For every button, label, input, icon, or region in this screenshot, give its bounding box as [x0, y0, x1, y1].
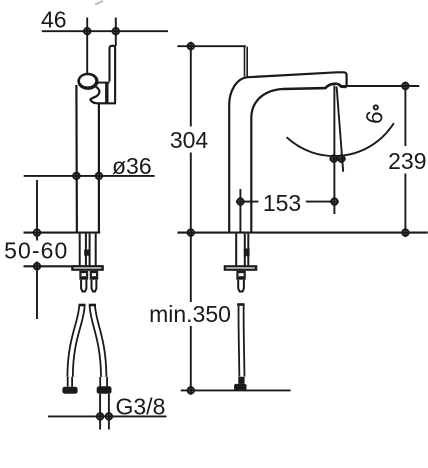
extension line min350 bottom: [181, 389, 291, 391]
flexible hose right: [92, 305, 103, 377]
marker min350 bottom: [186, 386, 195, 395]
body right edge front view: [98, 103, 100, 232]
hose tail prong left: [79, 271, 88, 280]
shank line 3: [89, 234, 91, 266]
svg-text:239: 239: [388, 148, 426, 174]
hose end fitting left: [68, 377, 72, 387]
dimension line o36: [24, 175, 155, 177]
spout nose wave front view: [90, 87, 116, 104]
marker 153 right: [330, 197, 339, 206]
marker 46 right: [111, 27, 120, 36]
mounting flange left view: [71, 265, 104, 271]
mounting flange right view: [224, 265, 258, 271]
deck top line left view: [24, 232, 101, 234]
extension line left (body axis): [86, 18, 88, 74]
spout slab front view: [110, 46, 116, 104]
extension line 304 top: [177, 45, 246, 47]
shank line 2: [85, 234, 87, 266]
svg-text:6: 6: [360, 109, 388, 126]
marker 50-60 bottom: [33, 262, 42, 271]
hose connector right view: [238, 377, 244, 384]
handle lever side view: [245, 47, 248, 77]
swivel slanted line 6 deg: [337, 87, 344, 172]
outlet axis line: [333, 86, 335, 215]
marker G38 right: [105, 412, 114, 421]
hose nut right view: [234, 384, 246, 391]
faucet outer profile side view: [229, 72, 346, 232]
spout ledge front view: [96, 82, 109, 84]
dimension line 153: [240, 201, 334, 203]
flexible hose right view: [238, 305, 246, 377]
marker swivel left: [329, 154, 338, 163]
svg-text:G3/8: G3/8: [116, 393, 166, 419]
handle stem dark bar front view: [105, 83, 108, 103]
marker 153 left: [236, 197, 245, 206]
marker o36 left: [72, 172, 81, 181]
svg-text:304: 304: [170, 127, 209, 153]
marker 304 top: [186, 42, 195, 51]
body axis line right view: [239, 189, 241, 233]
knob ball outer: [77, 73, 98, 90]
marker 50-60 top: [33, 228, 42, 237]
svg-text:ø36: ø36: [112, 153, 152, 179]
shank lines right view: [236, 234, 248, 266]
hose tail prong right: [90, 271, 99, 280]
svg-text:153: 153: [263, 190, 301, 216]
extension line right (spout face): [115, 18, 117, 47]
marker 46 left: [83, 27, 92, 36]
dimension line G3/8: [48, 415, 167, 417]
shank line 1: [79, 234, 81, 266]
dimension line 46: [42, 30, 168, 32]
knob ball inner: [80, 75, 95, 86]
hose tail prong right view: [236, 271, 246, 280]
dimension line 239: [404, 86, 406, 233]
faint scan artifact top: [95, 1, 103, 5]
faucet inner profile side view: [251, 89, 283, 233]
marker deck left: [186, 228, 195, 237]
dimension line 304: [190, 46, 192, 232]
flexible hose left: [70, 305, 82, 377]
body left edge front view: [75, 85, 78, 233]
svg-text:min.350: min.350: [149, 301, 231, 327]
marker o36 right: [95, 172, 104, 181]
svg-text:46: 46: [41, 7, 67, 33]
marker deck right: [401, 228, 410, 237]
deck line right view: [177, 232, 427, 234]
spout underside and outlet bump side view: [283, 84, 347, 89]
shank line 4: [95, 234, 97, 266]
deck bottom line left view: [24, 265, 104, 267]
threaded tails G3/8: [100, 394, 109, 430]
hose end fitting right: [100, 377, 107, 386]
svg-text:50-60: 50-60: [4, 238, 68, 264]
shank nut square: [84, 250, 90, 256]
marker swivel right: [337, 154, 346, 163]
swivel arc: [287, 123, 394, 156]
extension vertical 50-60: [36, 180, 38, 319]
extension line 239 top: [339, 85, 419, 87]
dimension line min350: [190, 233, 192, 391]
marker 239 top: [401, 82, 410, 91]
marker G38 left: [96, 412, 105, 421]
shank nut square right view: [244, 249, 250, 257]
